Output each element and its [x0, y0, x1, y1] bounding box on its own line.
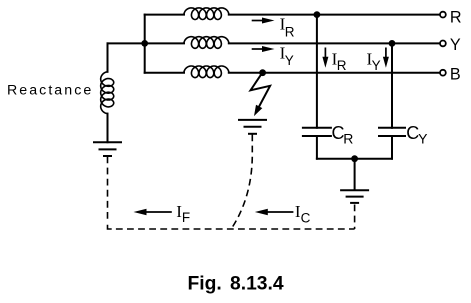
svg-text:B: B: [450, 65, 461, 83]
svg-text:Y: Y: [372, 58, 381, 73]
svg-text:C: C: [301, 210, 311, 225]
svg-text:R: R: [285, 24, 295, 39]
svg-text:F: F: [182, 210, 190, 225]
svg-text:8.13.4: 8.13.4: [230, 273, 284, 294]
svg-text:Y: Y: [450, 36, 461, 54]
svg-text:Y: Y: [418, 130, 428, 146]
svg-text:R: R: [343, 130, 353, 146]
svg-text:Reactance: Reactance: [7, 83, 93, 99]
svg-text:R: R: [337, 58, 347, 73]
svg-text:Y: Y: [285, 53, 294, 68]
svg-text:R: R: [450, 8, 462, 26]
svg-text:Fig.: Fig.: [188, 273, 222, 294]
